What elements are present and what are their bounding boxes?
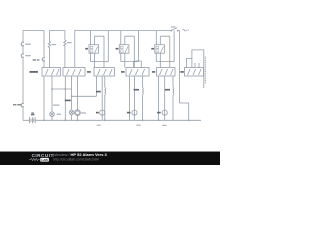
coil L1 bbox=[104, 87, 107, 94]
lamp LC bbox=[75, 110, 81, 116]
relay contact block B3 bbox=[94, 68, 115, 77]
lamp LF bbox=[162, 110, 167, 115]
pushbutton S2 bbox=[23, 54, 24, 55]
wire top left loop bbox=[23, 29, 44, 31]
lamp LB bbox=[69, 110, 74, 115]
wire y96.3 bbox=[72, 95, 97, 97]
relay contact block B4 bbox=[126, 61, 149, 76]
relay group A2 bbox=[119, 31, 138, 68]
pushbutton S3 bbox=[23, 103, 24, 104]
pushbutton S4 Alarm Push bbox=[44, 57, 45, 58]
text smudges: dark labels bbox=[13, 48, 184, 115]
logo resistor squiggle bbox=[29, 158, 40, 160]
wire box2 top bbox=[49, 31, 65, 42]
wire B2 down bbox=[65, 76, 77, 120]
relay contact block B2 bbox=[63, 68, 85, 77]
bottom bus bbox=[23, 119, 201, 121]
pushbutton S1 bbox=[23, 42, 24, 43]
relay contact block B5 bbox=[157, 68, 176, 77]
lamp LD bbox=[100, 110, 105, 115]
wire rail x44 bbox=[43, 30, 45, 67]
coil L3 bbox=[172, 87, 175, 94]
wire B5 down bbox=[165, 76, 173, 120]
wire big box top bus bbox=[75, 31, 189, 121]
text smudges: light labels bbox=[25, 26, 175, 126]
lamp LA bbox=[50, 112, 55, 117]
switch SW top bbox=[171, 30, 172, 31]
svg-text:http://circuitlab.com/c6wk2tr8: http://circuitlab.com/c6wk2tr84 bbox=[53, 157, 99, 161]
relay group A3 bbox=[155, 31, 174, 68]
relay group A1 bbox=[89, 31, 108, 68]
lamp LE bbox=[132, 110, 137, 115]
battery V1 bbox=[30, 117, 35, 123]
coil L2 bbox=[142, 87, 145, 94]
wire left rail x23 bbox=[22, 30, 24, 120]
footer bar bbox=[0, 151, 220, 152]
resistor R1 bbox=[48, 42, 50, 68]
wire B1 down bbox=[44, 76, 52, 120]
junction dots bbox=[43, 88, 190, 121]
wire B3 down bbox=[96, 76, 104, 120]
svg-text:LAB: LAB bbox=[41, 158, 48, 162]
svg-text:johndew / HP 52 Alarm Vers 3: johndew / HP 52 Alarm Vers 3 bbox=[52, 152, 107, 157]
relay contact block B1 bbox=[42, 68, 61, 77]
relay contact block B6 bbox=[185, 50, 204, 88]
fuse marks top right bbox=[183, 29, 190, 31]
resistor R2 bbox=[64, 40, 66, 68]
LAB white box bbox=[40, 158, 49, 162]
rotated label right bbox=[204, 57, 206, 85]
wire gap rails bbox=[130, 76, 159, 120]
wire B4 down bbox=[135, 76, 143, 120]
mid band wires bbox=[23, 76, 201, 123]
wire y89 bbox=[52, 88, 72, 90]
